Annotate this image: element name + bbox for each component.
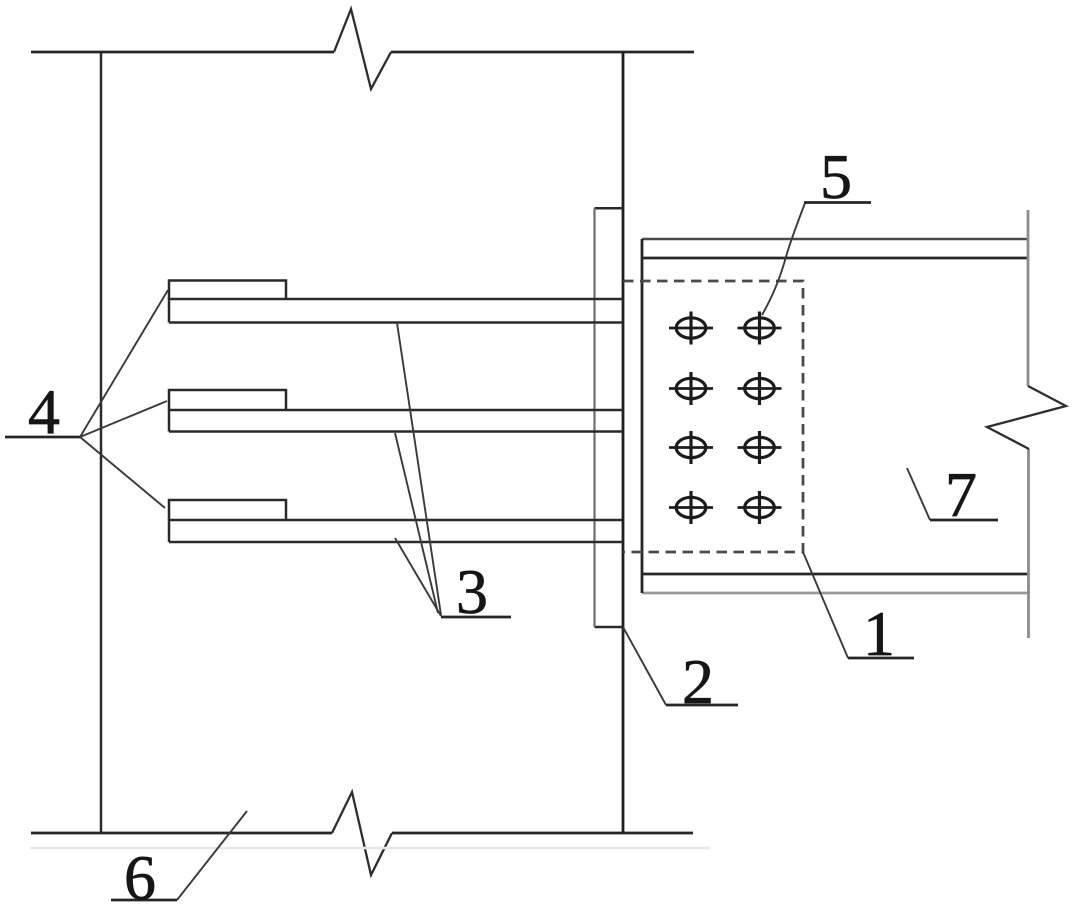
upper anchor bar (3) (169, 299, 623, 323)
faint scan streak under bottom line (30, 847, 710, 850)
bolt (5) r2c2 (738, 372, 782, 405)
label 2 leader (623, 627, 666, 705)
beam bottom flange bottom line (642, 592, 1028, 595)
column bottom edge line (31, 832, 693, 835)
beam bottom flange top line (642, 573, 1028, 576)
svg-text:3: 3 (456, 556, 488, 627)
label 4 arrow middle (80, 401, 167, 437)
label 3 leader a (397, 323, 441, 615)
beam right cut line (1027, 210, 1030, 638)
bolt (5) r1c1 (669, 312, 713, 345)
column left flange line (100, 52, 103, 833)
svg-text:5: 5 (820, 141, 852, 212)
label 4 arrow lower (80, 437, 165, 508)
lower anchor bar (3) (169, 520, 623, 542)
label 3 leader c (395, 538, 441, 616)
label 1 underline (848, 657, 914, 660)
label 6 leader (177, 811, 247, 900)
column top edge line (31, 51, 694, 54)
beam top flange top line (642, 238, 1028, 241)
top break symbol (334, 9, 391, 89)
label 4 arrow upper (80, 290, 168, 437)
right break symbol (987, 386, 1066, 449)
label 7 leader (907, 468, 930, 520)
label 3 underline (441, 616, 511, 619)
label 4 underline (5, 436, 80, 439)
bolt (5) r4c1 (669, 491, 713, 524)
label 5 underline (804, 201, 871, 204)
connection plate 1 dashed outline (623, 281, 803, 552)
svg-text:7: 7 (945, 459, 977, 530)
upper cleat (4) (169, 281, 286, 300)
label 5 leader (762, 203, 805, 315)
bottom break symbol (332, 792, 392, 875)
column right flange line (622, 52, 625, 833)
label 7 underline (930, 519, 998, 522)
end plate 2 outline (595, 208, 624, 627)
svg-text:2: 2 (682, 646, 714, 717)
svg-text:6: 6 (124, 842, 156, 912)
beam end vertical line (641, 239, 644, 593)
middle cleat (4) (169, 390, 286, 410)
beam top flange bottom line (642, 257, 1028, 260)
bolt (5) r3c2 (738, 431, 782, 464)
bolt (5) r2c1 (669, 372, 713, 405)
bolt (5) r4c2 (738, 491, 782, 524)
middle anchor bar (3) (169, 410, 623, 432)
label 6 underline (111, 899, 177, 902)
bolt (5) r3c1 (669, 431, 713, 464)
lower cleat (4) (169, 500, 286, 520)
label 2 underline (666, 704, 738, 707)
label 3 leader b (395, 433, 438, 613)
label 1 leader (803, 552, 848, 658)
svg-text:4: 4 (28, 376, 60, 447)
svg-text:1: 1 (863, 598, 895, 669)
bolt (5) r1c2 (738, 312, 782, 345)
